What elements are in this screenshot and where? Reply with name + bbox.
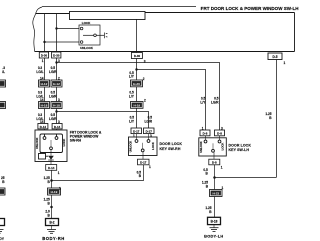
edge sliver connector (cut H box upper): [0, 80, 6, 87]
connector H-23: [210, 190, 223, 197]
wire to UNLOCK contact: [45, 41, 81, 43]
connector H-18 (left): [39, 102, 50, 109]
wire label 0.5 LG/R row3: [49, 113, 57, 121]
wire label 0.5 L/Y (right col): [200, 97, 206, 105]
wire label 1.25 B (right col upper): [265, 112, 272, 120]
connector H-20 (middle col): [131, 80, 143, 87]
svg-text:1: 1: [42, 59, 44, 63]
wire LG/R vertical (second column inside box): [56, 14, 58, 52]
svg-text:2: 2: [144, 99, 146, 103]
wire label 0.3 LG/L row2: [36, 91, 43, 99]
svg-text:D-8: D-8: [203, 132, 208, 136]
wire D-14 to ground chain: [51, 170, 53, 188]
svg-text:DOOR LOCK: DOOR LOCK: [229, 144, 252, 148]
wire middle column L/Y down: [136, 59, 138, 129]
label DOOR LOCK KEY SW-RH: [160, 142, 183, 151]
svg-text:LG/R: LG/R: [211, 101, 219, 105]
connector D-17 (bottom): [138, 159, 150, 165]
svg-text:D-14: D-14: [40, 125, 47, 129]
svg-text:D-30: D-30: [41, 54, 48, 58]
svg-text:FRT DOOR LOCK & POWER WINDOW S: FRT DOOR LOCK & POWER WINDOW SW-LH: [201, 6, 299, 11]
wire label 0.5 L/Y (middle col row A): [129, 71, 135, 79]
component DOOR LOCK KEY SW-RH: [129, 134, 158, 160]
connector H-18 (right): [51, 102, 62, 109]
connector D-5 (right): [268, 53, 282, 60]
torn page edge (left wavy): [33, 7, 42, 52]
svg-text:H-19: H-19: [133, 103, 140, 107]
svg-text:D-8: D-8: [212, 161, 217, 165]
svg-text:UNLOCK: UNLOCK: [199, 141, 203, 153]
wire left chain LG/R down: [56, 58, 58, 136]
svg-text:KEY SW-LH: KEY SW-LH: [229, 148, 250, 152]
wire horizontal from junction to D-5 drop: [215, 177, 277, 179]
node junction right ground: [213, 176, 216, 179]
node branch C junction on LG/R: [55, 110, 57, 112]
connector H-19 (middle col): [131, 102, 144, 109]
svg-text:3: 3: [221, 126, 223, 130]
switch S1 lock/unlock (inside SW-LH): [79, 25, 107, 45]
svg-text:/L: /L: [2, 70, 5, 74]
svg-text:D-8: D-8: [217, 132, 222, 136]
resistor (illumination, SW-RH): [39, 153, 49, 160]
svg-text:LG/R: LG/R: [49, 70, 57, 74]
wire L/Y vertical (middle column inside box): [136, 19, 138, 53]
svg-text:LOCK: LOCK: [62, 139, 66, 147]
edge sliver connector (cut H box lower): [0, 102, 6, 109]
svg-text:1: 1: [284, 61, 286, 65]
wire branch C horizontal to middle key sw right pin: [57, 112, 149, 129]
svg-text:KEY SW-RH: KEY SW-RH: [160, 147, 181, 151]
edge sliver connector (cut H box ground chain): [0, 188, 5, 195]
wire key sw lh ground chain: [214, 165, 216, 218]
connector H-12 (right): [51, 80, 62, 87]
wire label 0.3 LG/L row1: [36, 66, 43, 74]
connector D-14 (bottom of SW-RH): [46, 165, 57, 171]
edge sliver connector (cut B box): [0, 219, 5, 226]
svg-text:1: 1: [59, 187, 61, 191]
svg-text:LOCK: LOCK: [151, 142, 155, 150]
svg-text:LG/L: LG/L: [36, 70, 43, 74]
svg-text:LG/R: LG/R: [144, 119, 152, 123]
component box FRT DOOR LOCK & POWER WINDOW SW-LH (top): [35, 13, 295, 52]
connector D-8 (right top): [215, 130, 225, 136]
svg-text:D-17: D-17: [140, 161, 147, 165]
svg-text:LG/R: LG/R: [49, 94, 57, 98]
wire label 0.5 L/Y (above D-17): [129, 116, 135, 124]
label leader line to SW-LH: [42, 6, 196, 8]
wire label 1.25 B (above H-23): [202, 180, 209, 188]
svg-text:1: 1: [202, 126, 204, 130]
svg-text:UNLOCK: UNLOCK: [129, 141, 133, 153]
node branch B junction on L/Y: [135, 68, 137, 70]
wire branch B horizontal to right key sw left pin: [137, 70, 206, 131]
connector B-18 (bold): [208, 217, 221, 224]
wire label 1.25 B (below H-23): [205, 206, 212, 214]
wire label 1.25 B (below H-19): [44, 198, 51, 206]
svg-text:H-12: H-12: [53, 82, 60, 86]
svg-text:2: 2: [143, 77, 145, 81]
node ground junction left: [50, 179, 53, 182]
wire H-19 to B-2: [51, 195, 53, 219]
svg-text:H-18: H-18: [41, 103, 48, 107]
svg-text:UNLOCK: UNLOCK: [35, 137, 39, 149]
connector B-2 (bold): [46, 219, 59, 226]
wire label 0.5 L/Y (middle col row B): [129, 91, 135, 99]
component DOOR LOCK KEY SW-LH: [199, 136, 227, 159]
label FRT DOOR LOCK & POWER WINDOW SW-RH: [70, 130, 102, 142]
svg-text:LOCK: LOCK: [221, 143, 225, 151]
svg-text:UNLOCK: UNLOCK: [80, 46, 94, 50]
svg-text:SW-RH: SW-RH: [70, 138, 82, 142]
diode D1 (SW-RH): [48, 150, 54, 165]
svg-text:D-14: D-14: [54, 125, 61, 129]
svg-text:D-17: D-17: [133, 129, 140, 133]
connector H-12 (left): [39, 80, 50, 87]
svg-text:H-12: H-12: [41, 82, 48, 86]
node branch A junction on LG/R: [55, 61, 57, 63]
svg-text:H-20: H-20: [133, 82, 140, 86]
label DOOR LOCK KEY SW-LH: [229, 144, 252, 153]
wire branch A horizontal to right key sw: [57, 63, 220, 131]
wire label 0.5 B (key sw rh): [137, 170, 142, 178]
wire D-5 drop (1.25 B): [276, 60, 278, 178]
wire label 0.5 LG/R (above D-17 right): [144, 116, 152, 124]
svg-text:D-14: D-14: [48, 166, 55, 170]
ground BODY-RH: [47, 226, 56, 234]
svg-text:3: 3: [144, 60, 146, 64]
svg-text:D-30: D-30: [134, 54, 141, 58]
wire horizontal ground link (key sw rh): [52, 165, 144, 181]
connector H-19 (left chain): [48, 188, 61, 195]
wire label 1.25 B (left, above H-19): [44, 176, 51, 184]
svg-text:D-5: D-5: [272, 55, 277, 59]
svg-text:1: 1: [58, 171, 60, 175]
wire label 0.3 LG/L row3: [36, 113, 43, 121]
connector D-17 (left top): [131, 128, 142, 134]
connector D-17 (right top): [144, 128, 155, 134]
svg-text:LOCK: LOCK: [82, 21, 91, 25]
svg-text:BODY-LH: BODY-LH: [204, 234, 223, 239]
svg-text:B-2: B-2: [49, 221, 54, 225]
ground BODY-LH: [210, 225, 219, 232]
node splice on left ground chain: [50, 206, 53, 209]
connector D-30 (second): [52, 52, 61, 58]
connector D-14 (left top): [38, 124, 48, 129]
svg-text:D-17: D-17: [146, 129, 153, 133]
edge sliver ground: [0, 226, 4, 234]
wire label 2.0 B: [45, 210, 50, 218]
svg-text:LG/R: LG/R: [49, 117, 57, 121]
connector D-8 (left top): [200, 130, 210, 136]
wire label 0.5 LG/R row1: [49, 66, 57, 74]
wire label 0.5 LG/R row2: [49, 91, 57, 99]
svg-text:1: 1: [149, 165, 151, 169]
connector D-30 (left): [39, 52, 48, 58]
connector D-8 (bottom): [209, 159, 220, 165]
svg-text:H-23: H-23: [212, 192, 219, 196]
svg-text:B-18: B-18: [211, 220, 218, 224]
svg-text:H-19: H-19: [51, 190, 58, 194]
wire label 0.5 B (key sw lh): [203, 168, 208, 176]
edge sliver text (1.25 B): [1, 176, 5, 184]
node junction LG/R to LOCK contact: [55, 27, 57, 29]
connector D-30 (middle column): [131, 53, 142, 59]
node junction LG/L to UNLOCK contact: [43, 41, 45, 43]
wire left chain LG/L down: [44, 58, 46, 136]
svg-text:DOOR LOCK: DOOR LOCK: [160, 142, 183, 146]
svg-text:1: 1: [221, 166, 223, 170]
connector bar on top of SW-LH box: [70, 12, 146, 20]
connector D-14 (right top): [52, 124, 62, 129]
edge sliver text (cut column, row1): [2, 66, 5, 74]
wire to LOCK contact: [57, 28, 81, 30]
svg-text:3: 3: [58, 59, 60, 63]
wire LG/L vertical (left column inside box): [44, 14, 46, 52]
wire label 0.5 LG/R (right col): [211, 97, 219, 105]
svg-text:D-30: D-30: [53, 54, 60, 58]
component box FRT DOOR LOCK & POWER WINDOW SW-RH: [35, 130, 67, 162]
svg-text:BODY-RH: BODY-RH: [42, 236, 64, 241]
svg-text:H-18: H-18: [53, 103, 60, 107]
